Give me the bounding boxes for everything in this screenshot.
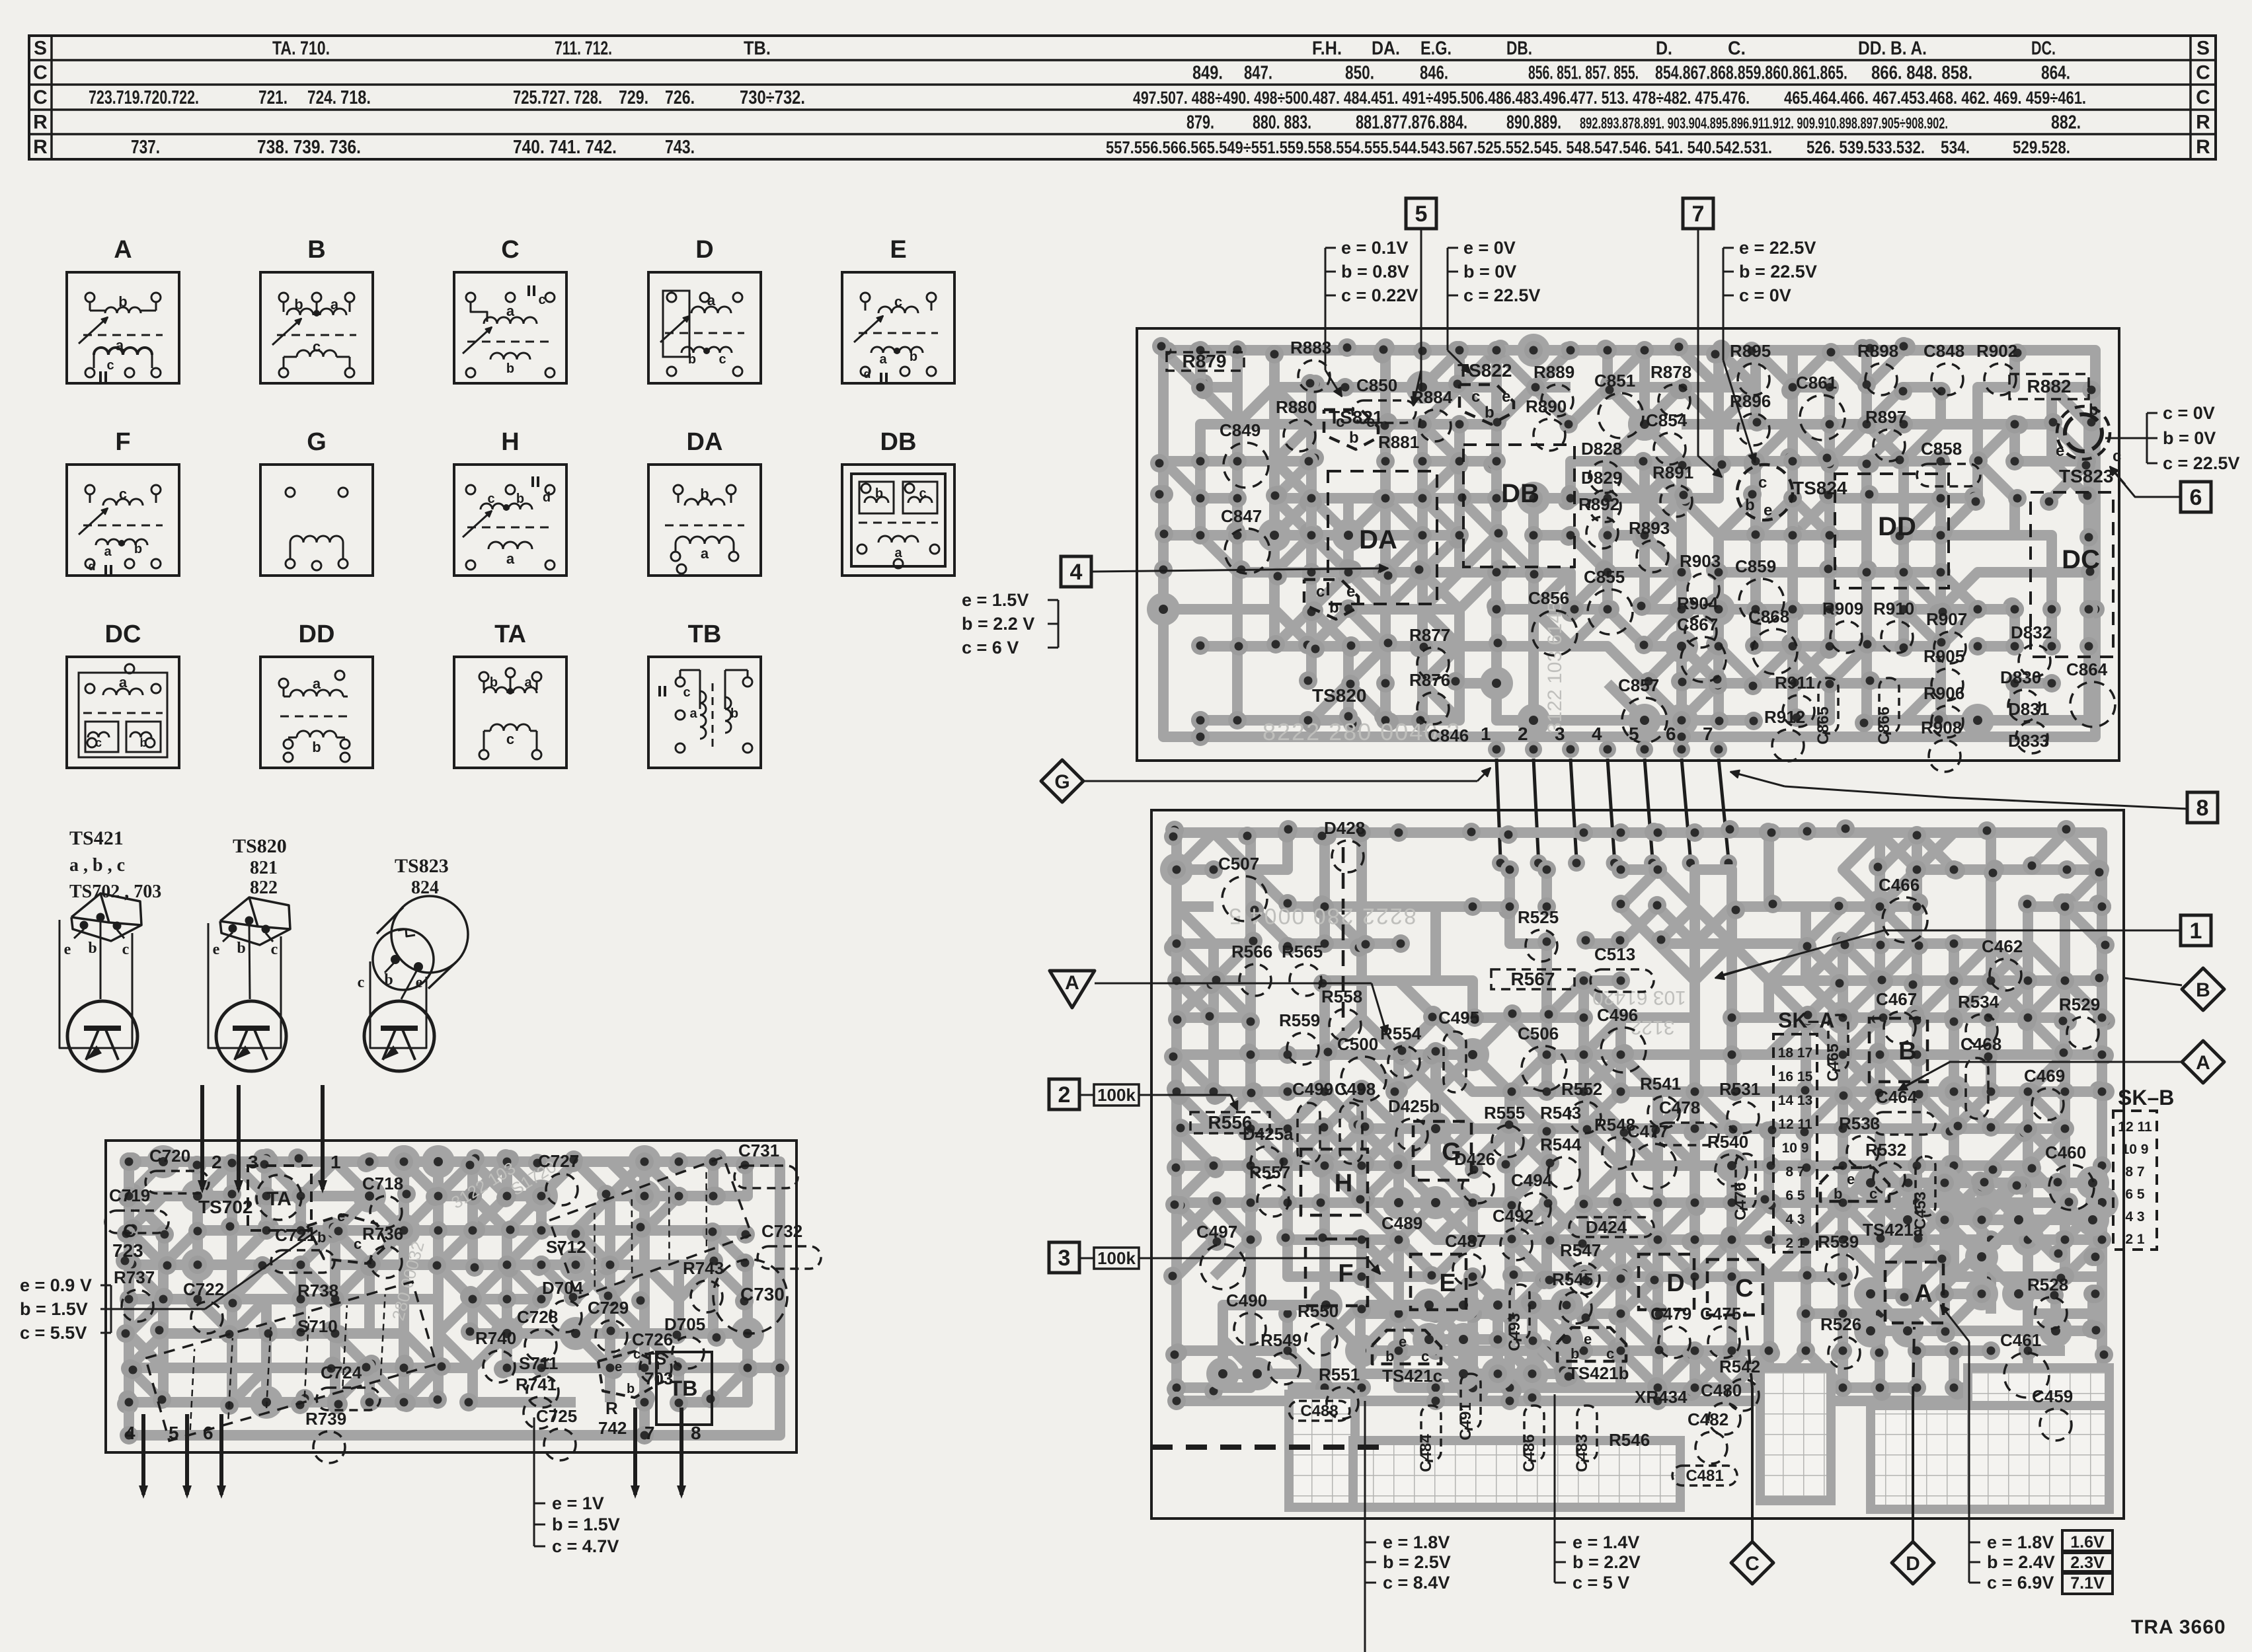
bottom PCB crosshatch ground plane middle xyxy=(1760,1368,1831,1501)
resistor R908 xyxy=(1921,718,1962,772)
svg-text:E: E xyxy=(890,236,906,264)
svg-text:c: c xyxy=(1758,474,1767,492)
svg-text:b: b xyxy=(1745,496,1755,514)
svg-text:c: c xyxy=(2113,447,2121,465)
svg-text:D829: D829 xyxy=(1581,468,1622,488)
resistor R554 xyxy=(1380,1024,1422,1078)
capacitor C498 xyxy=(1335,1079,1376,1164)
svg-text:738. 739. 736.: 738. 739. 736. xyxy=(257,137,361,158)
svg-text:C719: C719 xyxy=(109,1185,150,1205)
svg-text:e = 22.5V: e = 22.5V xyxy=(1739,238,1816,258)
callout box 4 xyxy=(1061,556,1091,587)
leader from diamond D xyxy=(1912,1401,1914,1542)
capacitor C725 xyxy=(536,1406,577,1460)
transistor TS421c outline xyxy=(1372,1330,1441,1364)
svg-text:C: C xyxy=(2196,87,2210,108)
svg-text:c = 0.22V: c = 0.22V xyxy=(1341,285,1418,305)
capacitor C851 xyxy=(1594,371,1643,438)
svg-text:a: a xyxy=(524,675,532,690)
voltage annotation group TS820 xyxy=(962,590,1058,657)
capacitor C849 xyxy=(1220,420,1268,488)
voltage annotation group TS821 xyxy=(1325,238,1418,396)
svg-text:18 17: 18 17 xyxy=(1778,1045,1813,1061)
bottom PCB crosshatch ground plane right xyxy=(1871,1368,2109,1509)
svg-text:TS823: TS823 xyxy=(2059,466,2114,486)
resistor R890 xyxy=(1526,396,1567,451)
bottom PCB copper traces xyxy=(1160,819,2118,1410)
svg-text:R556: R556 xyxy=(1208,1112,1253,1133)
voltage annotation group TS822 xyxy=(1448,238,1540,373)
svg-text:e = 1V: e = 1V xyxy=(552,1493,604,1513)
capacitor C731 xyxy=(734,1141,798,1188)
svg-text:a: a xyxy=(707,292,716,309)
svg-text:6 5: 6 5 xyxy=(1785,1188,1805,1203)
svg-text:C851: C851 xyxy=(1594,371,1635,391)
svg-text:c: c xyxy=(538,293,545,307)
transformer detail B xyxy=(260,236,373,383)
capacitor C728 xyxy=(517,1307,558,1361)
svg-text:2: 2 xyxy=(1058,1082,1071,1108)
capacitor C495 xyxy=(1438,1008,1479,1092)
callout diamond C xyxy=(1731,1542,1773,1584)
svg-text:b: b xyxy=(312,739,321,755)
svg-text:e = 1.8V: e = 1.8V xyxy=(1383,1532,1450,1552)
svg-text:D425b: D425b xyxy=(1388,1096,1440,1116)
resistor R567 xyxy=(1491,969,1574,989)
svg-text:SK–B: SK–B xyxy=(2118,1086,2174,1109)
svg-text:c: c xyxy=(313,338,321,355)
svg-text:R879: R879 xyxy=(1183,351,1227,371)
svg-text:TS421b: TS421b xyxy=(1568,1363,1629,1383)
svg-text:R550: R550 xyxy=(1298,1301,1339,1321)
svg-text:C482: C482 xyxy=(1688,1409,1728,1429)
svg-text:e: e xyxy=(416,974,423,991)
resistor R912 xyxy=(1764,707,1805,761)
svg-text:7: 7 xyxy=(644,1423,655,1443)
transistor TS421b outline xyxy=(1557,1328,1626,1361)
svg-text:TS820: TS820 xyxy=(233,835,287,857)
svg-text:R: R xyxy=(2196,112,2210,133)
svg-text:C867: C867 xyxy=(1677,615,1718,634)
svg-text:C490: C490 xyxy=(1226,1291,1267,1310)
svg-text:TB: TB xyxy=(670,1376,698,1400)
transformer detail DD xyxy=(260,620,373,768)
svg-text:R552: R552 xyxy=(1561,1079,1602,1099)
capacitor C464 xyxy=(1872,1087,1935,1135)
capacitor C497 xyxy=(1196,1222,1245,1289)
svg-text:5: 5 xyxy=(169,1423,179,1443)
svg-text:3: 3 xyxy=(1058,1246,1071,1271)
svg-text:c: c xyxy=(1471,388,1480,406)
capacitor C732 xyxy=(757,1221,821,1269)
capacitor C858 xyxy=(1917,439,1980,486)
capacitor C487 xyxy=(1445,1231,1486,1285)
svg-text:529.528.: 529.528. xyxy=(2013,137,2070,157)
svg-text:R534: R534 xyxy=(1958,992,2000,1012)
capacitor C861 xyxy=(1796,373,1845,440)
capacitor C493 xyxy=(1506,1285,1530,1351)
svg-text:C730: C730 xyxy=(740,1284,785,1304)
transistor TS703 outline xyxy=(598,1347,673,1398)
svg-text:C476: C476 xyxy=(1732,1182,1750,1220)
svg-text:c = 6 V: c = 6 V xyxy=(962,638,1019,657)
transformer detail G xyxy=(260,428,373,576)
svg-text:6 5: 6 5 xyxy=(2125,1187,2145,1202)
resistor R533 xyxy=(1839,1113,1880,1168)
svg-text:A: A xyxy=(1065,972,1079,994)
svg-text:C481: C481 xyxy=(1686,1467,1723,1485)
svg-text:12 11: 12 11 xyxy=(2118,1119,2152,1135)
leader from box 6 to TS823 xyxy=(2112,469,2181,497)
capacitor C481 xyxy=(1672,1466,1737,1485)
resistor R566 xyxy=(1231,942,1272,996)
svg-text:C464: C464 xyxy=(1876,1087,1918,1107)
svg-text:C: C xyxy=(1745,1553,1760,1575)
svg-text:R736: R736 xyxy=(362,1224,403,1244)
svg-text:R881: R881 xyxy=(1378,432,1419,452)
svg-text:526. 539.533.532.: 526. 539.533.532. xyxy=(1806,137,1925,157)
svg-text:e: e xyxy=(1764,502,1772,519)
transformer detail DC xyxy=(67,620,179,768)
transformer detail A xyxy=(67,236,179,383)
resistor R541 xyxy=(1640,1074,1681,1128)
transistor TS821 xyxy=(1324,407,1383,449)
section outline B xyxy=(1869,1018,1927,1082)
svg-text:C850: C850 xyxy=(1356,375,1397,395)
svg-text:a: a xyxy=(879,352,887,367)
svg-text:e = 0.1V: e = 0.1V xyxy=(1341,238,1408,258)
svg-text:5: 5 xyxy=(1629,724,1639,744)
capacitor C461 xyxy=(2000,1330,2049,1398)
svg-text:C866: C866 xyxy=(1875,706,1893,744)
svg-text:846.: 846. xyxy=(1420,63,1448,84)
svg-text:4 3: 4 3 xyxy=(2125,1209,2144,1224)
resistor R740 xyxy=(475,1328,516,1382)
svg-text:e: e xyxy=(64,941,71,958)
resistor R736 xyxy=(362,1224,403,1278)
section outline DA xyxy=(1328,471,1437,604)
resistor R545 xyxy=(1552,1269,1593,1324)
svg-text:C718: C718 xyxy=(362,1174,403,1193)
svg-text:R909: R909 xyxy=(1822,599,1863,619)
svg-text:e: e xyxy=(213,941,220,958)
svg-text:C: C xyxy=(33,87,48,108)
top PCB copper traces xyxy=(1147,334,2105,746)
svg-text:a: a xyxy=(104,544,112,559)
svg-text:TS: TS xyxy=(644,1349,666,1369)
capacitor C484 xyxy=(1417,1406,1441,1472)
svg-text:C868: C868 xyxy=(1748,607,1789,626)
resistor R907 xyxy=(1926,609,1967,663)
svg-text:D704: D704 xyxy=(542,1278,584,1298)
svg-text:d: d xyxy=(864,367,871,381)
capacitor C488 xyxy=(1289,1401,1350,1421)
svg-text:8 7: 8 7 xyxy=(1785,1164,1805,1180)
svg-text:A: A xyxy=(114,236,132,264)
transformer outline S710 xyxy=(145,1282,436,1441)
capacitor C462 xyxy=(1982,936,2023,991)
leader from diamond G xyxy=(1083,780,1477,782)
svg-text:TS823: TS823 xyxy=(395,855,449,877)
svg-text:R898: R898 xyxy=(1857,341,1898,361)
transistor pinout TS820 821 822 xyxy=(208,835,290,1071)
svg-text:R912: R912 xyxy=(1764,707,1805,727)
svg-text:C725: C725 xyxy=(536,1406,577,1426)
capacitor C489 xyxy=(1381,1213,1422,1233)
svg-text:b = 2.2 V: b = 2.2 V xyxy=(962,614,1034,634)
resistor R910 xyxy=(1873,599,1914,653)
capacitor C721 xyxy=(271,1225,334,1273)
svg-text:TB: TB xyxy=(688,620,722,648)
capacitor C499 xyxy=(1292,1079,1333,1164)
svg-text:C726: C726 xyxy=(632,1330,673,1349)
svg-text:8222 280 0004 5: 8222 280 0004 5 xyxy=(1227,903,1416,928)
transistor TS421a outline xyxy=(1820,1168,1889,1201)
bottom PCB crosshatch ground plane left xyxy=(1289,1394,1680,1507)
capacitor C491 xyxy=(1457,1374,1481,1441)
svg-text:C848: C848 xyxy=(1923,341,1964,361)
svg-text:DA: DA xyxy=(687,428,723,456)
svg-text:R: R xyxy=(605,1398,618,1418)
svg-text:5: 5 xyxy=(1415,202,1428,227)
callout diamond B xyxy=(2182,968,2224,1010)
svg-text:c: c xyxy=(106,358,114,373)
callout box 6 xyxy=(2181,482,2211,512)
svg-text:737.: 737. xyxy=(131,137,160,158)
svg-text:R546: R546 xyxy=(1609,1430,1650,1450)
leader from diamond C xyxy=(1751,1388,1754,1542)
diode D832 xyxy=(2011,622,2052,677)
svg-text:e = 0V: e = 0V xyxy=(1463,238,1516,258)
svg-text:R533: R533 xyxy=(1839,1113,1880,1133)
svg-text:TB.: TB. xyxy=(744,38,771,59)
diode D705 xyxy=(664,1314,705,1369)
resistor R558 xyxy=(1321,987,1362,1041)
capacitor C477 xyxy=(1627,1121,1676,1189)
svg-text:c: c xyxy=(1336,413,1344,431)
resistor R532 xyxy=(1865,1140,1906,1194)
svg-text:C465: C465 xyxy=(1824,1043,1842,1081)
diode D424 xyxy=(1569,1217,1654,1237)
svg-text:C486: C486 xyxy=(1520,1434,1538,1472)
callout diamond G xyxy=(1041,760,1083,802)
svg-text:E.G.: E.G. xyxy=(1420,38,1452,59)
svg-text:C849: C849 xyxy=(1220,420,1261,440)
svg-text:3: 3 xyxy=(248,1152,258,1172)
svg-text:TS820: TS820 xyxy=(1312,685,1367,706)
svg-text:856. 851. 857. 855.: 856. 851. 857. 855. xyxy=(1528,63,1639,84)
resistor R540 xyxy=(1707,1132,1748,1186)
svg-text:a: a xyxy=(506,303,515,319)
svg-text:864.: 864. xyxy=(2041,63,2070,84)
capacitor C727 xyxy=(538,1151,579,1205)
capacitor C718 xyxy=(362,1174,403,1228)
svg-text:F.H.: F.H. xyxy=(1312,38,1342,59)
svg-text:DB: DB xyxy=(880,428,917,456)
svg-text:2 1: 2 1 xyxy=(2125,1232,2145,1247)
svg-text:a: a xyxy=(701,545,709,562)
resistor R739 xyxy=(305,1409,346,1463)
svg-text:e = 0.9 V: e = 0.9 V xyxy=(20,1275,92,1295)
svg-text:b: b xyxy=(627,1382,635,1396)
resistor R881 xyxy=(1378,432,1419,452)
svg-text:SK–A: SK–A xyxy=(1778,1008,1834,1032)
svg-text:C492: C492 xyxy=(1493,1206,1534,1226)
part S710 xyxy=(297,1316,338,1336)
callout box 5 xyxy=(1406,198,1436,229)
capacitor C453 xyxy=(1912,1156,1935,1230)
svg-text:C506: C506 xyxy=(1518,1024,1559,1043)
svg-text:C480: C480 xyxy=(1701,1380,1742,1400)
svg-text:D424: D424 xyxy=(1586,1217,1627,1237)
resistor R879 xyxy=(1167,351,1244,371)
diode D704 xyxy=(542,1278,584,1332)
resistor R903 xyxy=(1680,551,1721,605)
resistor R552 xyxy=(1561,1079,1602,1133)
svg-text:1.6V: 1.6V xyxy=(2070,1533,2105,1552)
svg-text:e = 1.4V: e = 1.4V xyxy=(1573,1532,1639,1552)
svg-text:R911: R911 xyxy=(1775,673,1815,693)
top PCB board outline 8222 280 0040 xyxy=(1137,328,2119,761)
capacitor C868 xyxy=(1748,607,1797,674)
svg-text:a: a xyxy=(689,706,697,721)
svg-text:TS421c: TS421c xyxy=(1382,1366,1442,1386)
svg-text:R528: R528 xyxy=(2027,1275,2068,1295)
svg-text:b: b xyxy=(516,492,524,506)
svg-text:R897: R897 xyxy=(1865,407,1906,427)
svg-text:R543: R543 xyxy=(1540,1103,1581,1123)
capacitor C460 xyxy=(2045,1143,2094,1210)
svg-text:R902: R902 xyxy=(1976,341,2017,361)
svg-text:C507: C507 xyxy=(1218,854,1259,874)
svg-text:a: a xyxy=(116,337,124,354)
heavy dashed jumper wire bottom left xyxy=(1151,1445,1385,1450)
svg-text:C478: C478 xyxy=(1659,1098,1700,1117)
svg-text:c = 6.9V: c = 6.9V xyxy=(1987,1573,2054,1593)
svg-text:711. 712.: 711. 712. xyxy=(555,38,612,59)
capacitor C729 xyxy=(588,1298,629,1352)
svg-text:b: b xyxy=(1349,429,1359,447)
capacitor C857 xyxy=(1618,675,1667,743)
svg-text:C468: C468 xyxy=(1961,1034,2001,1054)
callout box 7 xyxy=(1683,198,1713,229)
svg-text:497.507. 488÷490. 498÷500.487.: 497.507. 488÷490. 498÷500.487. 484.451. … xyxy=(1133,88,1750,108)
voltage annotation group A with alternates xyxy=(1941,1305,2113,1594)
section outline D xyxy=(1639,1254,1694,1310)
svg-text:d: d xyxy=(543,490,551,505)
svg-text:G: G xyxy=(307,428,327,456)
svg-text:TS824: TS824 xyxy=(1793,478,1847,498)
section outline H xyxy=(1301,1149,1368,1215)
svg-text:c = 8.4V: c = 8.4V xyxy=(1383,1573,1450,1593)
svg-text:C487: C487 xyxy=(1445,1231,1486,1251)
svg-text:R565: R565 xyxy=(1282,942,1323,961)
capacitor C506 xyxy=(1518,1024,1567,1091)
svg-text:G: G xyxy=(1054,771,1069,793)
svg-text:TA: TA xyxy=(266,1188,291,1210)
svg-text:4 3: 4 3 xyxy=(1785,1212,1805,1227)
connector SK-A xyxy=(1773,1008,1834,1252)
svg-text:H: H xyxy=(1335,1170,1352,1197)
resistor R526 xyxy=(1820,1314,1861,1369)
svg-text:C727: C727 xyxy=(538,1151,579,1171)
svg-text:DC: DC xyxy=(2062,545,2100,574)
svg-text:D830: D830 xyxy=(2000,667,2041,687)
callout box 1 xyxy=(2181,915,2211,946)
svg-text:C469: C469 xyxy=(2024,1066,2065,1086)
svg-text:XR434: XR434 xyxy=(1635,1387,1688,1407)
svg-text:1: 1 xyxy=(2190,919,2202,944)
capacitor C467 xyxy=(1876,989,1917,1043)
svg-text:6: 6 xyxy=(203,1423,214,1443)
svg-text:b = 1.5V: b = 1.5V xyxy=(20,1299,88,1319)
resistor R902 xyxy=(1976,341,2017,395)
svg-text:G: G xyxy=(1442,1139,1461,1166)
svg-text:R743: R743 xyxy=(683,1258,724,1278)
svg-text:6: 6 xyxy=(2190,485,2202,510)
svg-text:8: 8 xyxy=(2196,796,2209,821)
capacitor C847 xyxy=(1221,506,1270,574)
svg-text:C856: C856 xyxy=(1528,588,1569,608)
diode D829 xyxy=(1581,468,1622,522)
capacitor C494 xyxy=(1511,1170,1553,1224)
part TS421b xyxy=(1568,1363,1629,1383)
svg-text:1: 1 xyxy=(1481,724,1491,744)
resistor R565 xyxy=(1282,942,1323,996)
svg-text:10 9: 10 9 xyxy=(2122,1142,2149,1157)
svg-text:740. 741. 742.: 740. 741. 742. xyxy=(513,137,617,158)
section outline DB xyxy=(1463,445,1574,567)
svg-text:C855: C855 xyxy=(1584,567,1625,587)
leader from diamond A xyxy=(1904,1062,2182,1087)
svg-text:D: D xyxy=(1666,1269,1684,1297)
svg-text:C: C xyxy=(2196,62,2210,84)
svg-text:C722: C722 xyxy=(183,1279,224,1299)
svg-text:TS421: TS421 xyxy=(69,827,124,849)
svg-text:a , b , c: a , b , c xyxy=(69,855,125,876)
leader from box 1 xyxy=(1719,930,2181,976)
svg-text:866. 848. 858.: 866. 848. 858. xyxy=(1871,63,1972,84)
capacitor C848 xyxy=(1923,341,1964,395)
capacitor C850 xyxy=(1352,375,1416,423)
svg-text:C489: C489 xyxy=(1381,1213,1422,1233)
svg-text:C513: C513 xyxy=(1594,944,1635,964)
svg-text:C865: C865 xyxy=(1814,706,1832,744)
svg-text:850.: 850. xyxy=(1345,63,1374,84)
leader from triangle A xyxy=(1095,983,1372,985)
svg-text:b: b xyxy=(875,486,883,501)
svg-text:723.719.720.722.: 723.719.720.722. xyxy=(89,87,199,108)
svg-text:822: 822 xyxy=(250,878,278,898)
svg-text:C728: C728 xyxy=(517,1307,558,1327)
svg-text:c: c xyxy=(119,486,127,502)
svg-text:R893: R893 xyxy=(1629,518,1670,538)
svg-text:C491: C491 xyxy=(1457,1402,1475,1440)
svg-text:R876: R876 xyxy=(1409,670,1450,690)
svg-text:c = 22.5V: c = 22.5V xyxy=(1463,285,1540,305)
svg-text:a: a xyxy=(330,296,339,313)
svg-text:C462: C462 xyxy=(1982,936,2023,956)
svg-text:892.893.878.891. 903.904.895.8: 892.893.878.891. 903.904.895.896.911.912… xyxy=(1580,115,1948,133)
svg-text:A: A xyxy=(1914,1280,1932,1308)
svg-text:2: 2 xyxy=(1518,724,1528,744)
section outline F xyxy=(1305,1239,1368,1306)
svg-text:c: c xyxy=(919,486,926,501)
svg-text:881.877.876.884.: 881.877.876.884. xyxy=(1356,112,1467,133)
diode D833 xyxy=(2008,731,2049,751)
section outline E xyxy=(1411,1254,1466,1310)
svg-text:7: 7 xyxy=(1703,724,1713,744)
